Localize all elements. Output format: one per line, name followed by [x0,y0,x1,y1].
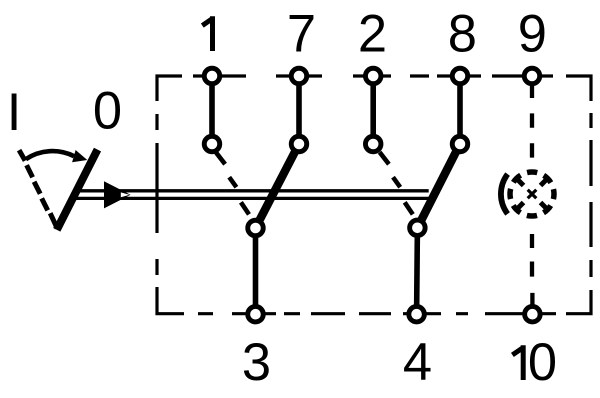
mechanical linkage lower line [73,197,430,200]
actuator lever solid (position 0) [57,150,98,230]
mechanical linkage upper line [76,189,429,192]
svg-text:3: 3 [242,333,271,392]
switch housing dashed box: left edge dashes [155,114,158,275]
wire: stem terminal 7 to fixed contact [296,76,302,144]
fixed contact below terminal 8 [452,136,468,152]
common junction pole B [410,220,426,236]
wire: stem terminal 1 to fixed contact [209,76,215,144]
linkage arrowhead [104,181,131,208]
lamp L1 cross spokes [517,179,546,208]
svg-text:2: 2 [358,4,387,63]
movable contact pole B (closed, 8-4) [417,144,460,228]
lamp L1 center cross [528,190,537,199]
switch housing dashed box: bottom-left corner [157,287,184,314]
label terminal 10 digit 1 [512,345,523,380]
lamp L1 dashed circle [510,172,554,216]
switch housing dashed box: bottom-right corner [566,290,591,314]
wire: stem terminal 8 to fixed contact [457,76,463,144]
svg-text:4: 4 [403,333,432,392]
movable contact pole A alternate position (dashed, 1-3) [216,152,249,214]
switch housing dashed box: top edge dashes [193,74,553,77]
movable contact pole A (closed, 7-3) [256,144,300,228]
terminal 8 contact circle [452,68,468,84]
lamp L1 left arc [501,174,508,214]
wire: dashed lamp feed to terminal 10 [530,234,535,314]
svg-text:0: 0 [93,82,122,141]
switch housing dashed box: top-left corner [157,76,182,101]
label terminal 1 [202,16,213,51]
terminal 1 contact circle [204,68,220,84]
svg-text:8: 8 [448,4,477,63]
fixed contact below terminal 1 [204,136,220,152]
terminal 10 contact circle [525,306,541,322]
terminal 9 contact circle [524,68,540,84]
switch housing dashed box: right edge dashes [589,113,592,277]
svg-text:9: 9 [518,4,547,63]
terminal 2 contact circle [365,68,381,84]
wire: stem common junction to terminal 4 [414,228,420,314]
svg-text:0: 0 [528,333,557,392]
actuation direction arc [26,151,74,159]
common junction pole A [248,220,264,236]
switch housing dashed box: top-right corner [566,76,591,101]
terminal 7 contact circle [291,68,307,84]
linkage arrowhead white notch [121,192,130,197]
actuation direction arrowhead [72,150,87,162]
switch housing dashed box: bottom edge dashes [198,312,556,315]
wire: dashed lamp feed from terminal 9 [530,76,534,158]
terminal 3 contact circle [248,306,264,322]
actuator lever dashed (position I) [19,150,57,228]
svg-text:7: 7 [287,4,316,63]
fixed contact below terminal 2 [365,136,381,152]
movable contact pole B alternate position (dashed, 2-4) [380,152,413,214]
wire: stem common junction to terminal 3 [253,228,259,314]
wire: stem terminal 2 to fixed contact [370,76,376,144]
terminal 4 contact circle [409,306,425,322]
svg-text:I: I [7,83,22,142]
fixed contact below terminal 7 [291,136,307,152]
